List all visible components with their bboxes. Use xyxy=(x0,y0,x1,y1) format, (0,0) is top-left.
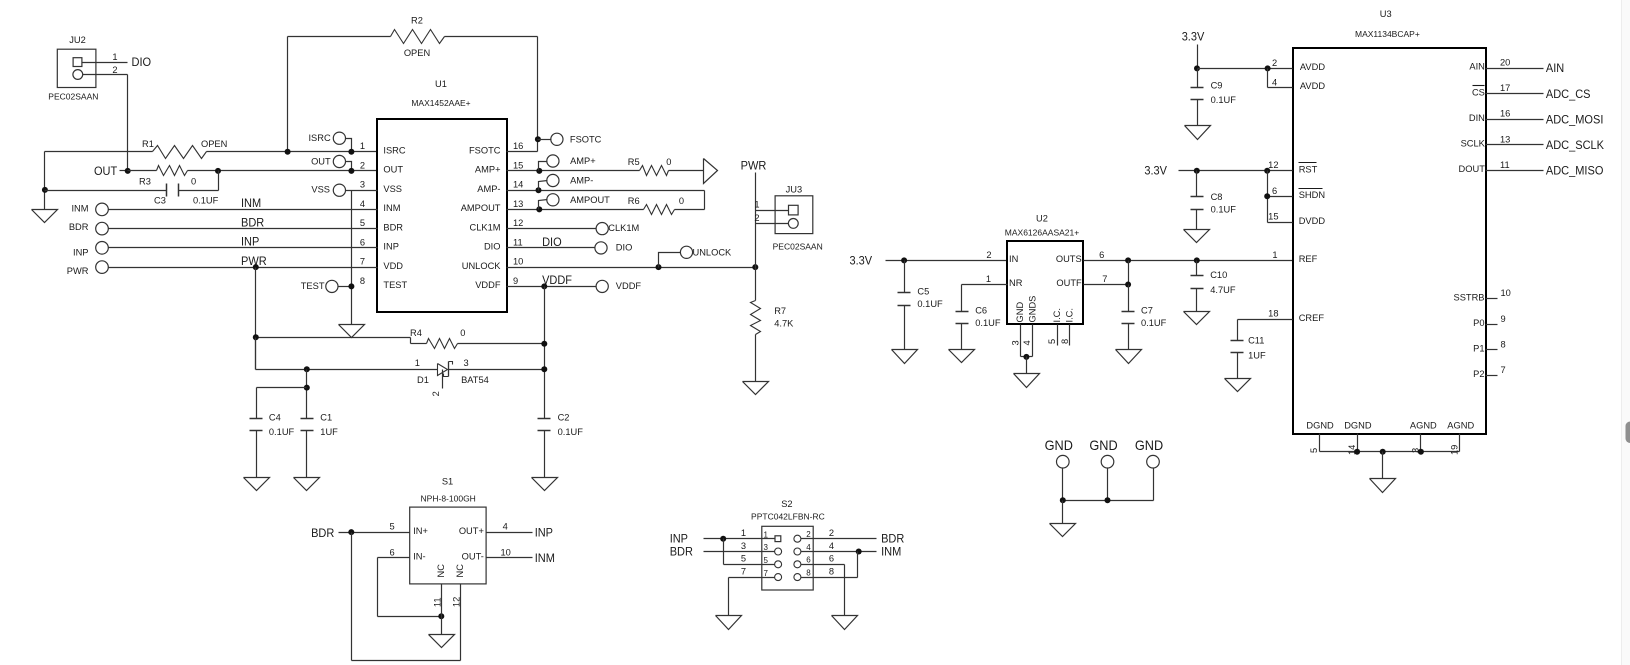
svg-text:13: 13 xyxy=(513,199,523,209)
power label 3.3V top xyxy=(1182,29,1205,43)
node junction S1 pin11 xyxy=(438,613,444,619)
svg-text:4: 4 xyxy=(1272,77,1277,87)
node junction INP xyxy=(720,536,726,542)
node junction INM xyxy=(856,549,862,555)
svg-text:2: 2 xyxy=(1272,58,1277,68)
svg-text:DGND: DGND xyxy=(1344,421,1372,431)
svg-text:1: 1 xyxy=(112,52,117,62)
svg-text:ADC_SCLK: ADC_SCLK xyxy=(1546,138,1604,152)
wire BDR to S2 pin3 xyxy=(704,551,775,553)
svg-text:C7: C7 xyxy=(1141,306,1153,316)
net label OUT xyxy=(94,164,118,178)
node junction GND bus 2 xyxy=(1105,497,1111,503)
svg-text:R5: R5 xyxy=(628,157,640,167)
wire C1 branch xyxy=(306,370,308,419)
svg-text:0.1UF: 0.1UF xyxy=(1211,205,1237,215)
node junction GND bus 1 xyxy=(1060,497,1066,503)
resistor R4 xyxy=(256,328,545,348)
wire D1 to C2 rail xyxy=(449,369,545,371)
net label INP at S2 xyxy=(670,532,688,546)
svg-text:2: 2 xyxy=(360,160,365,170)
svg-text:ISRC: ISRC xyxy=(308,133,330,143)
svg-text:5: 5 xyxy=(390,522,395,532)
wire R7 to ground xyxy=(755,335,757,382)
voltage reference U2 MAX6126AASA21+ box xyxy=(1005,213,1083,324)
net label DIO at JU2 xyxy=(132,55,152,69)
S2 right circle pin 4 xyxy=(794,548,801,555)
svg-text:5: 5 xyxy=(764,556,769,565)
S2 pin numbers xyxy=(741,528,834,578)
wire DIO stub xyxy=(507,247,596,249)
capacitor C3 xyxy=(45,171,219,206)
U3 left pin numbers xyxy=(1268,160,1278,319)
wire R2 right leg xyxy=(445,37,538,152)
svg-text:C8: C8 xyxy=(1211,192,1223,202)
svg-text:SSTRB: SSTRB xyxy=(1454,292,1485,302)
node junction SHDN xyxy=(1264,193,1270,199)
wire PWR corner to D1 xyxy=(256,338,438,370)
svg-text:DIO: DIO xyxy=(542,235,562,249)
svg-text:OPEN: OPEN xyxy=(404,48,430,58)
svg-text:VSS: VSS xyxy=(383,184,402,194)
svg-text:AMPOUT: AMPOUT xyxy=(570,195,610,205)
svg-text:JU2: JU2 xyxy=(69,35,86,45)
wire S1 pin10 OUT- xyxy=(487,547,533,557)
ground C7 xyxy=(1116,350,1142,364)
svg-text:TEST: TEST xyxy=(383,280,407,290)
U1 right pin labels and numbers xyxy=(461,141,524,290)
U2 pin5 pin8 stubs xyxy=(1047,325,1070,346)
svg-text:8: 8 xyxy=(1060,339,1070,344)
ground C2 xyxy=(532,478,558,491)
svg-text:7: 7 xyxy=(1102,274,1107,284)
svg-text:1: 1 xyxy=(1272,250,1277,260)
wire R2 left leg xyxy=(288,37,391,152)
ground R7 xyxy=(743,382,769,395)
svg-text:16: 16 xyxy=(513,141,523,151)
wire AMP+ line xyxy=(507,170,640,172)
node junction C3 left xyxy=(42,187,48,193)
wire FSOTC pin16 stub xyxy=(507,151,538,153)
svg-text:S2: S2 xyxy=(781,499,792,509)
svg-text:4: 4 xyxy=(806,543,811,552)
svg-text:IN+: IN+ xyxy=(413,526,428,536)
terminal AMPOUT circle xyxy=(536,194,610,213)
svg-text:6: 6 xyxy=(806,556,811,565)
S1 pin labels xyxy=(413,526,484,578)
U3 AVDD labels xyxy=(1300,62,1325,91)
svg-text:P0: P0 xyxy=(1473,318,1484,328)
svg-text:1UF: 1UF xyxy=(320,427,338,437)
svg-text:AMP-: AMP- xyxy=(477,184,500,194)
svg-text:4: 4 xyxy=(503,522,508,532)
ground C9 xyxy=(1185,126,1211,140)
net label PWR xyxy=(241,254,267,268)
svg-text:0.1UF: 0.1UF xyxy=(558,427,584,437)
svg-text:15: 15 xyxy=(513,160,523,170)
svg-text:1: 1 xyxy=(986,274,991,284)
svg-text:NC: NC xyxy=(455,564,465,578)
svg-text:0: 0 xyxy=(191,177,196,187)
wire JU2 pin2 down to OUT net xyxy=(83,65,128,171)
wire UNLOCK line xyxy=(507,267,756,269)
svg-text:ISRC: ISRC xyxy=(383,145,405,155)
capacitor C1 xyxy=(301,412,339,477)
wire S2 pin7 xyxy=(729,578,775,616)
svg-text:CREF: CREF xyxy=(1299,313,1325,323)
svg-text:3.3V: 3.3V xyxy=(1182,29,1205,43)
svg-text:4: 4 xyxy=(1022,340,1032,345)
node junction R4 left xyxy=(253,334,259,340)
svg-text:I.C.: I.C. xyxy=(1052,308,1062,322)
svg-text:1: 1 xyxy=(741,528,746,538)
svg-text:U2: U2 xyxy=(1036,213,1048,223)
svg-text:OUT: OUT xyxy=(383,165,403,175)
svg-text:2: 2 xyxy=(986,250,991,260)
wire OUT to U1 pin2 xyxy=(128,170,378,172)
svg-text:PEC02SAAN: PEC02SAAN xyxy=(773,241,823,251)
wire BDR to U1 xyxy=(109,228,378,230)
svg-text:C10: C10 xyxy=(1210,270,1227,280)
wire AVDD rail xyxy=(1198,68,1293,70)
ground C5 xyxy=(892,350,918,364)
svg-text:DVDD: DVDD xyxy=(1299,216,1326,226)
node junction D1 line C1 branch xyxy=(304,366,310,372)
node junction AGND xyxy=(1418,449,1424,455)
svg-text:UNLOCK: UNLOCK xyxy=(462,261,502,271)
svg-text:RST: RST xyxy=(1299,164,1318,174)
svg-text:AMP+: AMP+ xyxy=(475,165,501,175)
svg-text:2: 2 xyxy=(754,213,759,223)
S2 pin1 square xyxy=(775,536,781,542)
svg-text:12: 12 xyxy=(513,218,523,228)
net label INM xyxy=(241,196,261,210)
adc U3 MAX1134BCAP+ box xyxy=(1293,9,1486,434)
node junction UNLOCK hook xyxy=(656,264,662,270)
svg-text:C1: C1 xyxy=(320,412,332,422)
capacitor C9 xyxy=(1191,69,1237,126)
wire BDR to S1 pin5 xyxy=(339,522,410,533)
svg-text:SCLK: SCLK xyxy=(1461,139,1486,149)
svg-text:3: 3 xyxy=(741,541,746,551)
net label PWR xyxy=(741,159,767,173)
net label BDR at S2 xyxy=(670,544,693,558)
node junction PWR/VDD xyxy=(253,264,259,270)
U3 DVDD label xyxy=(1299,216,1326,226)
S2 right circle pin 8 xyxy=(794,574,801,581)
svg-text:IN: IN xyxy=(1009,254,1018,264)
wire CREF xyxy=(1238,319,1293,321)
resistor R2 xyxy=(391,16,445,59)
S2 left circle pin 7 xyxy=(775,574,782,581)
svg-text:AMPOUT: AMPOUT xyxy=(461,203,501,213)
svg-text:R3: R3 xyxy=(139,177,151,187)
svg-text:2: 2 xyxy=(431,391,441,396)
node junction DGND xyxy=(1354,449,1360,455)
wire NR to C6 xyxy=(962,284,1008,286)
U3 pin 20 AIN to AIN xyxy=(1469,58,1564,76)
svg-text:6: 6 xyxy=(829,554,834,564)
svg-text:FSOTC: FSOTC xyxy=(469,145,501,155)
node junction R2/ISRC xyxy=(285,149,291,155)
svg-text:4.7UF: 4.7UF xyxy=(1210,285,1236,295)
wire S1 bottom loop xyxy=(352,533,461,661)
connector JU2 xyxy=(48,35,98,102)
svg-text:MAX1134BCAP+: MAX1134BCAP+ xyxy=(1355,29,1420,39)
wire S1 pin4 OUT+ xyxy=(487,522,533,533)
U3 pin 16 DIN to ADC_MOSI xyxy=(1469,109,1604,127)
svg-text:P1: P1 xyxy=(1473,344,1484,354)
svg-text:NPH-8-100GH: NPH-8-100GH xyxy=(421,493,476,503)
svg-text:NR: NR xyxy=(1009,278,1023,288)
wire S2 pin4 to INM xyxy=(801,551,877,553)
svg-text:10: 10 xyxy=(501,547,511,557)
ground U3 xyxy=(1370,479,1396,493)
svg-text:C5: C5 xyxy=(917,287,929,297)
wire VDDF down to C2 xyxy=(544,287,546,419)
capacitor C6 xyxy=(956,285,1001,350)
node junction C8 xyxy=(1194,168,1200,174)
ground C10 xyxy=(1184,312,1210,325)
wire CLK1M stub xyxy=(507,228,597,230)
arrow terminal PWR input xyxy=(704,159,718,184)
wire INM to U1 xyxy=(109,209,378,211)
op-amp U1 MAX1452AAE+ box xyxy=(377,79,507,312)
ground VSS xyxy=(339,325,365,338)
U3 SHDN label xyxy=(1299,189,1326,201)
svg-text:8: 8 xyxy=(806,569,811,578)
svg-text:SHDN: SHDN xyxy=(1299,190,1325,200)
svg-text:OUT+: OUT+ xyxy=(459,526,484,536)
net label BDR right of S2 xyxy=(881,532,904,546)
wire R5 to arrow xyxy=(669,170,704,172)
svg-text:19: 19 xyxy=(1450,445,1460,455)
wire VDDF line xyxy=(507,286,597,288)
wire INP to S2 pin1 xyxy=(704,538,776,540)
wire 3.3V to U2 IN xyxy=(886,260,1008,262)
svg-text:ADC_MISO: ADC_MISO xyxy=(1546,164,1604,178)
svg-text:DIO: DIO xyxy=(616,243,633,253)
svg-text:0.1UF: 0.1UF xyxy=(193,195,219,205)
svg-text:0.1UF: 0.1UF xyxy=(269,427,295,437)
svg-text:5: 5 xyxy=(360,218,365,228)
svg-text:OPEN: OPEN xyxy=(201,139,227,149)
svg-text:15: 15 xyxy=(1268,212,1278,222)
terminal AMP- circle xyxy=(536,174,594,193)
svg-text:6: 6 xyxy=(1272,186,1277,196)
wire PWR to U1 xyxy=(109,267,378,269)
U3 pin 17 CS to ADC_CS xyxy=(1472,83,1591,101)
svg-text:17: 17 xyxy=(1500,83,1510,93)
svg-text:DGND: DGND xyxy=(1306,421,1334,431)
svg-text:CLK1M: CLK1M xyxy=(608,223,639,233)
svg-text:2: 2 xyxy=(112,65,117,75)
node junction U2 gnd xyxy=(1023,354,1029,360)
svg-text:0.1UF: 0.1UF xyxy=(1211,95,1237,105)
svg-text:3: 3 xyxy=(764,543,769,552)
svg-text:U3: U3 xyxy=(1380,9,1392,19)
svg-text:JU3: JU3 xyxy=(786,185,803,195)
node junction C5 xyxy=(901,257,907,263)
diode D1 BAT54 xyxy=(415,358,489,396)
wire S2 pin6 to ground xyxy=(801,565,845,616)
resistor R6 xyxy=(628,196,684,214)
svg-text:INP: INP xyxy=(535,525,553,539)
capacitor C4 xyxy=(250,412,295,477)
svg-text:1: 1 xyxy=(415,358,420,368)
svg-text:1: 1 xyxy=(360,141,365,151)
svg-text:BAT54: BAT54 xyxy=(461,375,489,385)
node junction AVDD xyxy=(1265,65,1271,71)
terminal DIO circle xyxy=(595,242,632,254)
svg-text:D1: D1 xyxy=(417,375,429,385)
svg-text:R6: R6 xyxy=(628,196,640,206)
net label VDDF xyxy=(542,273,572,287)
connector S2 PPTC042LFBN-RC box xyxy=(751,499,825,590)
svg-text:7: 7 xyxy=(741,567,746,577)
svg-text:GND: GND xyxy=(1089,437,1117,453)
net label BDR xyxy=(241,215,264,229)
net label INP at S1 xyxy=(535,525,553,539)
capacitor C11 xyxy=(1231,320,1266,379)
svg-text:8: 8 xyxy=(1501,339,1506,349)
svg-text:U1: U1 xyxy=(435,79,447,89)
svg-text:16: 16 xyxy=(1500,109,1510,119)
svg-text:OUT: OUT xyxy=(311,157,331,167)
svg-text:DIN: DIN xyxy=(1469,113,1485,123)
svg-text:5: 5 xyxy=(741,554,746,564)
svg-text:CS: CS xyxy=(1472,87,1485,97)
sensor S1 NPH-8-100GH box xyxy=(410,477,486,584)
node junction D1/C2 xyxy=(541,366,547,372)
resistor R5 xyxy=(628,157,672,175)
wire U2 gnd stem xyxy=(1026,357,1028,374)
wire AMPOUT line xyxy=(507,209,644,211)
svg-text:I.C.: I.C. xyxy=(1065,308,1075,322)
svg-text:BDR: BDR xyxy=(69,222,89,232)
svg-text:GND: GND xyxy=(1015,302,1025,323)
svg-text:4: 4 xyxy=(829,541,834,551)
ground C8 xyxy=(1184,230,1210,243)
svg-text:11: 11 xyxy=(513,237,523,247)
wire C4 link xyxy=(257,388,307,419)
svg-text:R1: R1 xyxy=(142,139,154,149)
svg-text:AIN: AIN xyxy=(1546,61,1564,75)
ground left rail xyxy=(32,210,58,223)
net label DIO at U1 xyxy=(542,235,562,249)
node junction R4 right xyxy=(541,341,547,347)
net label INM right of S2 xyxy=(881,544,901,558)
svg-text:BDR: BDR xyxy=(670,544,693,558)
U3 REF label xyxy=(1299,254,1318,264)
wire INP to S2 pin5 xyxy=(724,539,775,565)
svg-text:12: 12 xyxy=(1268,160,1278,170)
svg-text:6: 6 xyxy=(1099,250,1104,260)
ground C1 xyxy=(294,478,320,491)
ground C11 xyxy=(1225,379,1251,392)
S2 right circle pin 6 xyxy=(794,561,801,568)
svg-text:7: 7 xyxy=(1501,365,1506,375)
svg-text:3: 3 xyxy=(464,358,469,368)
svg-text:INM: INM xyxy=(241,196,261,210)
wire GND stem xyxy=(1062,501,1064,524)
terminal BDR header circle xyxy=(69,222,108,235)
terminal GND 2 xyxy=(1089,437,1117,500)
node junction R3/C3 xyxy=(215,168,221,174)
U2 pin labels xyxy=(986,250,1108,323)
svg-text:CLK1M: CLK1M xyxy=(469,222,500,232)
wire GND bus xyxy=(1063,500,1154,502)
node junction C10 xyxy=(1194,257,1200,263)
U3 pin 10 SSTRB stub xyxy=(1454,288,1511,302)
svg-text:INP: INP xyxy=(383,242,399,252)
wire left rail down xyxy=(44,152,46,210)
wire PWR vertical xyxy=(755,173,757,301)
svg-text:OUT-: OUT- xyxy=(462,552,484,562)
wire SHDN DVDD chain xyxy=(1268,171,1293,223)
svg-text:3.3V: 3.3V xyxy=(850,254,873,268)
node junction UNLOCK/PWR xyxy=(752,264,758,270)
svg-text:10: 10 xyxy=(513,257,523,267)
svg-text:6: 6 xyxy=(390,547,395,557)
svg-text:GNDS: GNDS xyxy=(1028,296,1038,323)
U3 pin2 pin4 numbers xyxy=(1272,58,1277,87)
svg-text:9: 9 xyxy=(1501,314,1506,324)
U3 pin 8 P1 stub xyxy=(1473,339,1506,353)
svg-text:5: 5 xyxy=(1047,339,1057,344)
terminal VSS circle xyxy=(311,184,377,196)
svg-text:13: 13 xyxy=(1500,134,1510,144)
svg-text:14: 14 xyxy=(513,180,523,190)
svg-text:ADC_CS: ADC_CS xyxy=(1546,87,1591,101)
net label BDR at S1 xyxy=(311,526,334,540)
svg-text:DOUT: DOUT xyxy=(1459,164,1486,174)
wire VSS down rail xyxy=(351,191,353,325)
resistor R1 xyxy=(142,139,227,159)
svg-text:3: 3 xyxy=(360,180,365,190)
svg-text:7: 7 xyxy=(360,257,365,267)
svg-text:DIO: DIO xyxy=(484,242,501,252)
svg-text:AVDD: AVDD xyxy=(1300,62,1325,72)
svg-text:11: 11 xyxy=(1500,160,1510,170)
svg-text:R4: R4 xyxy=(410,328,422,338)
U3 ground stubs xyxy=(1309,434,1460,456)
ground GND testpoints xyxy=(1050,524,1076,537)
svg-text:12: 12 xyxy=(452,597,462,607)
ground C6 xyxy=(949,350,975,363)
terminal CLK1M circle xyxy=(596,223,639,235)
svg-text:3: 3 xyxy=(1011,340,1021,345)
wire PWR down xyxy=(255,268,257,370)
svg-text:R7: R7 xyxy=(774,306,786,316)
svg-text:NC: NC xyxy=(436,564,446,578)
wire S1 pin11 to ground xyxy=(441,617,443,635)
svg-text:2: 2 xyxy=(806,530,811,539)
wire OUT stub xyxy=(120,170,128,172)
terminal PWR header circle xyxy=(67,261,109,276)
svg-text:3.3V: 3.3V xyxy=(1144,164,1167,178)
wire IN- loop xyxy=(378,558,442,617)
wire JU3 pin2 xyxy=(754,213,788,224)
svg-text:ADC_MOSI: ADC_MOSI xyxy=(1546,112,1604,126)
node junction C9 xyxy=(1194,65,1200,71)
svg-text:UNLOCK: UNLOCK xyxy=(693,247,733,257)
node junction OUTF xyxy=(1125,282,1131,288)
terminal OUT circle xyxy=(311,155,354,174)
svg-text:C3: C3 xyxy=(154,195,166,205)
svg-text:OUT: OUT xyxy=(94,164,118,178)
svg-text:C11: C11 xyxy=(1248,335,1264,345)
